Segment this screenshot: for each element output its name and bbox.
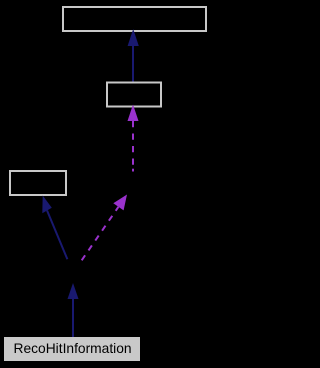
svg-text:RecoHitInformation: RecoHitInformation <box>14 341 132 356</box>
